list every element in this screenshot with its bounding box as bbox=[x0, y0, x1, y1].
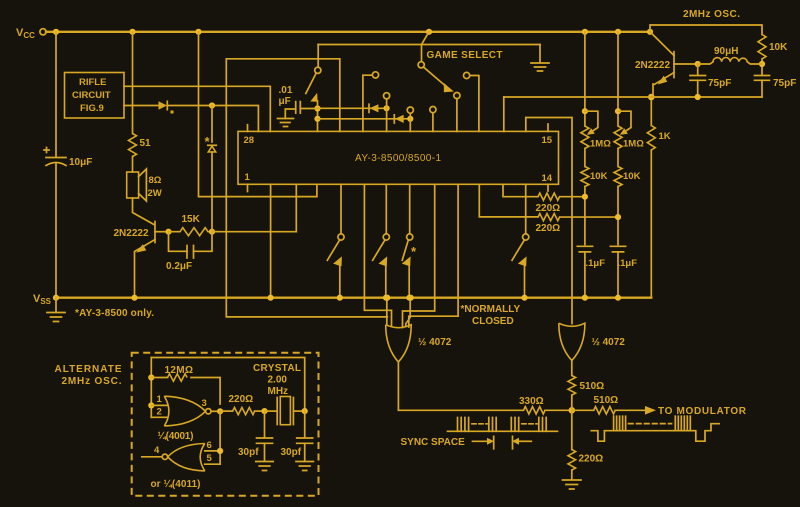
svg-text:6: 6 bbox=[207, 440, 212, 451]
wire chip pin x503 to 220ohm-1 bbox=[503, 184, 538, 196]
wire x212 vertical bbox=[211, 106, 213, 232]
wire osc top rail bbox=[650, 25, 762, 35]
waveform sync left bbox=[448, 430, 558, 432]
wire Vcc drop to 10uF bbox=[55, 32, 57, 157]
wire chip pin x364.4 to or gate bbox=[364, 184, 391, 326]
switch S3 bbox=[340, 184, 342, 234]
svg-text:2MHz OSC.: 2MHz OSC. bbox=[683, 9, 740, 20]
wire rifle upper output bbox=[124, 86, 270, 131]
wire Vcc drop x198.5 to chip bottom pin bbox=[199, 32, 317, 197]
svg-text:220Ω: 220Ω bbox=[536, 203, 561, 214]
svg-text:½ 4072: ½ 4072 bbox=[418, 337, 452, 348]
wire game select bus y44.5 bbox=[318, 32, 540, 45]
svg-text:CIRCUIT: CIRCUIT bbox=[72, 90, 111, 101]
svg-text:30pf: 30pf bbox=[281, 447, 302, 458]
node junction crystal right bbox=[302, 408, 308, 414]
node junction 1K top bbox=[648, 94, 655, 101]
wire rifle lower output bbox=[124, 105, 159, 107]
svg-text:0.2μF: 0.2μF bbox=[166, 261, 192, 272]
svg-text:*AY-3-8500 only.: *AY-3-8500 only. bbox=[75, 308, 154, 319]
node junction Vss x56 bbox=[53, 295, 59, 301]
node junction Vss or-gate left input a bbox=[384, 295, 390, 301]
svg-text:2W: 2W bbox=[148, 188, 162, 199]
svg-text:4: 4 bbox=[154, 445, 160, 456]
ground video divider bbox=[563, 480, 582, 489]
svg-text:1: 1 bbox=[245, 172, 251, 183]
wire Vcc rail bbox=[46, 31, 650, 33]
svg-text:VCC: VCC bbox=[16, 27, 35, 40]
speaker 8ohm 2W bbox=[127, 172, 139, 198]
svg-text:75pF: 75pF bbox=[773, 78, 796, 89]
svg-text:90μH: 90μH bbox=[714, 46, 738, 57]
wire chip pin x458.1 to or gate bbox=[409, 184, 458, 327]
svg-text:220Ω: 220Ω bbox=[579, 454, 604, 465]
wire crystal feedback top bbox=[151, 358, 304, 411]
svg-text:510Ω: 510Ω bbox=[594, 395, 619, 406]
switch S4 bbox=[385, 184, 387, 234]
svg-text:1MΩ: 1MΩ bbox=[590, 139, 611, 150]
svg-text:CRYSTAL: CRYSTAL bbox=[253, 363, 301, 374]
svg-text:15: 15 bbox=[542, 135, 553, 146]
svg-text:CLOSED: CLOSED bbox=[472, 316, 514, 327]
node Vcc terminal bbox=[40, 29, 46, 35]
svg-text:or ¼(4011): or ¼(4011) bbox=[151, 479, 201, 490]
node junction 220-2 x618 bbox=[615, 214, 621, 220]
crystal 2.00 MHz bbox=[265, 410, 278, 412]
resistor 220 upper bbox=[538, 193, 585, 200]
resistor 12M bbox=[151, 377, 167, 379]
node junction Vss x270.6 bbox=[268, 295, 274, 301]
inductor 90uH bbox=[698, 62, 713, 64]
transistor Q1 2N2222 audio bbox=[154, 222, 156, 243]
wire 330 to junction bbox=[545, 409, 572, 411]
wire Vcc drop to 51 resistor bbox=[132, 32, 134, 134]
waveform modulator bbox=[591, 424, 719, 442]
svg-text:51: 51 bbox=[140, 138, 152, 149]
svg-text:10K: 10K bbox=[590, 171, 608, 182]
node junction Vcc x56 bbox=[53, 29, 59, 35]
svg-text:75pF: 75pF bbox=[708, 78, 731, 89]
wire chip top pin to osc rail bbox=[503, 97, 505, 131]
wire gate2 inputs bbox=[205, 451, 220, 464]
switch S1 .01uF bbox=[317, 45, 319, 68]
box rifle circuit fig.9 bbox=[65, 73, 125, 119]
svg-text:.1μF: .1μF bbox=[618, 258, 638, 269]
nor-gate U3b 4011 bbox=[168, 444, 205, 471]
node junction Vcc x132.5 bbox=[129, 29, 135, 35]
wire 10uF to Vss bbox=[55, 164, 57, 298]
node junction D4 right bbox=[407, 116, 413, 122]
svg-text:10K: 10K bbox=[623, 171, 641, 182]
wire gate2 tie bbox=[219, 411, 221, 464]
node junction 12M left bbox=[148, 374, 154, 380]
svg-text:.01: .01 bbox=[279, 85, 293, 96]
pin 28 bbox=[247, 125, 249, 132]
wire chip-top route to or gate bbox=[226, 59, 387, 317]
svg-text:510Ω: 510Ω bbox=[580, 381, 605, 392]
node junction gate1 input bbox=[148, 402, 154, 408]
svg-text:10K: 10K bbox=[769, 42, 788, 53]
potentiometer 1M first bbox=[584, 32, 586, 126]
diode D1 rifle bbox=[159, 101, 168, 109]
box alternate osc dashed bbox=[132, 353, 319, 496]
node junction S1 x317.5 y108.5 bbox=[314, 105, 320, 111]
switch S2 game select bbox=[421, 45, 423, 62]
svg-text:*: * bbox=[205, 134, 211, 149]
node junction tank right bbox=[759, 61, 765, 67]
resistor 510 horizontal bbox=[572, 409, 594, 411]
pin 15 bbox=[547, 124, 549, 131]
or-gate U2a half 4072 left bbox=[386, 325, 412, 362]
node junction 15K right bbox=[209, 229, 215, 235]
svg-text:2N2222: 2N2222 bbox=[635, 60, 670, 71]
wire U2a output bbox=[398, 362, 523, 410]
resistor 15K bbox=[169, 228, 220, 236]
svg-text:2MHz OSC.: 2MHz OSC. bbox=[62, 376, 122, 387]
svg-text:1K: 1K bbox=[659, 131, 671, 142]
svg-text:RIFLE: RIFLE bbox=[79, 77, 106, 88]
diode D2 vertical bbox=[208, 144, 216, 146]
svg-text:VSS: VSS bbox=[33, 293, 52, 306]
pin 1 bbox=[247, 184, 249, 191]
svg-text:30pf: 30pf bbox=[238, 447, 259, 458]
svg-text:14: 14 bbox=[542, 173, 553, 184]
capacitor 75pF left bbox=[697, 64, 699, 75]
wire speaker to Q1 collector bbox=[133, 198, 154, 225]
node junction gate1 out bbox=[217, 408, 223, 414]
svg-text:10μF: 10μF bbox=[69, 157, 92, 168]
svg-text:2: 2 bbox=[157, 407, 162, 418]
contact x432.9 bbox=[432, 112, 434, 131]
wire 51 to speaker bbox=[132, 157, 134, 173]
svg-text:2.00: 2.00 bbox=[268, 375, 288, 386]
resistor 220 crystal bbox=[220, 410, 233, 412]
svg-text:8Ω: 8Ω bbox=[149, 175, 162, 186]
node junction D3 right bbox=[384, 105, 390, 111]
wire diode row2 bbox=[318, 118, 411, 120]
wire 15K node to chip pin bbox=[212, 184, 296, 231]
svg-text:15K: 15K bbox=[182, 214, 201, 225]
node junction tank left bbox=[695, 61, 701, 67]
contact x478.9 bbox=[470, 76, 479, 132]
potentiometer 1M second bbox=[617, 32, 619, 126]
switch S5 bbox=[409, 184, 411, 234]
ground game select bbox=[531, 45, 549, 72]
node junction Vss or-gate left input b bbox=[408, 295, 414, 301]
svg-text:.1μF: .1μF bbox=[586, 258, 606, 269]
IC U1 AY-3-8500 bbox=[238, 131, 559, 184]
wire pin15 route bbox=[526, 118, 572, 324]
svg-text:GAME SELECT: GAME SELECT bbox=[427, 50, 503, 61]
or-gate U2b half 4072 right bbox=[559, 323, 585, 360]
svg-text:3: 3 bbox=[202, 398, 207, 409]
contact x362.9 bbox=[363, 75, 373, 131]
svg-text:330Ω: 330Ω bbox=[519, 396, 544, 407]
svg-text:2N2222: 2N2222 bbox=[114, 228, 149, 239]
node junction Vss x134.5 bbox=[131, 295, 137, 301]
svg-text:μF: μF bbox=[279, 96, 291, 107]
svg-text:¼(4001): ¼(4001) bbox=[158, 431, 194, 442]
node junction osc cap1 bbox=[695, 94, 701, 100]
resistor 51 bbox=[129, 134, 137, 157]
node junction Vcc x618 bbox=[615, 29, 621, 35]
pin 14 bbox=[547, 184, 549, 191]
switch S6 normally closed bbox=[525, 184, 527, 234]
capacitor 75pF right bbox=[755, 76, 770, 81]
resistor 510 vertical bbox=[571, 360, 573, 375]
node junction crystal left bbox=[261, 408, 267, 414]
resistor 10K second bbox=[617, 149, 619, 167]
transistor Q2 2N2222 osc bbox=[673, 52, 675, 78]
svg-text:12MΩ: 12MΩ bbox=[165, 365, 194, 376]
capacitor 30pf right bbox=[304, 411, 306, 437]
nor-gate U3a 4001 bbox=[164, 396, 205, 426]
svg-text:SYNC SPACE: SYNC SPACE bbox=[401, 437, 466, 448]
svg-text:MHz: MHz bbox=[268, 386, 289, 397]
node junction S1 x317.5 y118.8 bbox=[314, 116, 320, 122]
diode D3 bbox=[368, 104, 370, 112]
capacitor C 10uF bbox=[46, 157, 66, 159]
resistor 330 bbox=[524, 407, 545, 414]
resistor 10K first bbox=[584, 149, 586, 167]
resistor 1K bbox=[650, 97, 652, 126]
capacitor .1uF first bbox=[577, 246, 592, 252]
diode D4 bbox=[393, 115, 395, 123]
wire diode row1 bbox=[318, 107, 387, 109]
wire osc bottom rail bbox=[504, 96, 762, 98]
node junction Vcc x650 bbox=[647, 29, 653, 35]
wire Vss rail bbox=[56, 297, 651, 299]
wire chip pin x479.3 to 220ohm-2 bbox=[479, 184, 538, 217]
node junction Vcc x584.9 bbox=[582, 29, 588, 35]
capacitor 30pf left bbox=[264, 411, 266, 437]
node junction Vcc x198.5 bbox=[195, 29, 201, 35]
svg-text:28: 28 bbox=[244, 135, 255, 146]
wire chip pin to Vss x270.6 bbox=[270, 184, 272, 297]
svg-text:AY-3-8500/8500-1: AY-3-8500/8500-1 bbox=[355, 153, 442, 164]
svg-text:FIG.9: FIG.9 bbox=[80, 103, 104, 114]
wire chip pin x434.7 to or gate bbox=[403, 184, 435, 327]
svg-text:1MΩ: 1MΩ bbox=[623, 139, 644, 150]
resistor 10K osc bbox=[758, 35, 766, 59]
node junction 220-1 x584.9 bbox=[582, 194, 588, 200]
resistor 220 vertical bbox=[571, 410, 573, 449]
svg-text:*: * bbox=[411, 244, 417, 259]
wire to modulator bbox=[615, 409, 645, 411]
node junction diode line x212 bbox=[209, 102, 215, 108]
capacitor 0.2uF bbox=[169, 232, 213, 252]
svg-text:5: 5 bbox=[207, 453, 213, 464]
svg-text:*NORMALLY: *NORMALLY bbox=[461, 304, 521, 315]
svg-text:ALTERNATE: ALTERNATE bbox=[55, 364, 122, 375]
wire osc left vertical bbox=[150, 358, 152, 418]
node junction gate2 bbox=[217, 448, 223, 454]
svg-text:½ 4072: ½ 4072 bbox=[592, 337, 626, 348]
svg-text:220Ω: 220Ω bbox=[536, 223, 561, 234]
node junction Vcc x429 bbox=[426, 29, 432, 35]
capacitor .1uF second bbox=[610, 246, 625, 252]
wire gate1 inputs bbox=[151, 405, 167, 417]
svg-text:TO MODULATOR: TO MODULATOR bbox=[658, 406, 747, 417]
svg-text:1: 1 bbox=[157, 394, 163, 405]
wire gate1 output bbox=[211, 410, 220, 412]
node junction video bbox=[569, 407, 576, 414]
ground Vss bbox=[47, 298, 65, 322]
svg-text:220Ω: 220Ω bbox=[229, 394, 254, 405]
resistor 220 lower bbox=[538, 214, 618, 221]
node junction Q1 base bbox=[165, 229, 171, 235]
